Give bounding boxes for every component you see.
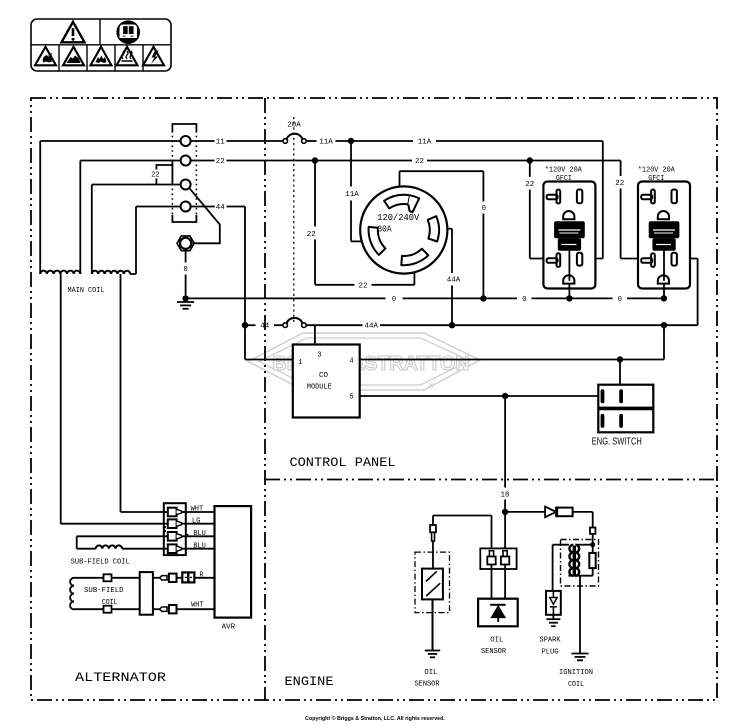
avr connector block — [164, 503, 186, 555]
wire terminal 22 to coil — [80, 160, 181, 162]
svg-text:BLU: BLU — [193, 542, 206, 550]
wire terminal 33 to bond — [189, 188, 220, 243]
svg-text:SPARK: SPARK — [540, 637, 562, 645]
outer dash-dot border — [31, 98, 717, 700]
wire 22 drop to GFCI2 — [621, 161, 642, 259]
svg-text:5: 5 — [349, 394, 353, 402]
wire 18 from pin5 junction — [502, 396, 508, 548]
GFCI bottom ground dome — [563, 275, 574, 283]
oil sensor connector block — [480, 548, 516, 598]
GFCI bottom neutral T-slot — [547, 253, 561, 267]
Briggs & Stratton watermark logo — [248, 333, 480, 391]
svg-text:*120V 20A: *120V 20A — [638, 167, 676, 175]
svg-text:18: 18 — [501, 491, 510, 499]
svg-text:COIL: COIL — [568, 681, 584, 689]
divider alternator / control panel — [264, 98, 266, 700]
svg-text:AVR: AVR — [222, 624, 236, 632]
wire bond to ground 0 — [185, 249, 187, 299]
terminal 11 — [181, 136, 191, 146]
inline connector R row — [153, 574, 182, 582]
warning triangle general alert icon — [62, 22, 85, 43]
svg-text:CONTROL PANEL: CONTROL PANEL — [290, 455, 396, 470]
svg-text:*120V 20A: *120V 20A — [545, 167, 583, 175]
ignition coil T1 — [553, 540, 599, 587]
svg-text:SENSOR: SENSOR — [415, 681, 441, 689]
svg-text:OIL: OIL — [490, 637, 503, 645]
GFCI top ground dome — [563, 211, 574, 219]
receptacle slot bottom — [401, 249, 428, 265]
wire BLU row 3 — [186, 535, 215, 537]
spark plug P1 — [546, 591, 561, 615]
svg-text:WHT: WHT — [191, 506, 204, 514]
svg-text:11A: 11A — [345, 191, 359, 199]
terminal 44 — [181, 202, 191, 212]
svg-text:ENG. SWITCH: ENG. SWITCH — [592, 437, 642, 448]
wire pin 5 to eng switch — [360, 393, 599, 399]
svg-text:MODULE: MODULE — [307, 384, 332, 392]
wire pin 4 to eng switch — [360, 325, 664, 385]
sub-field coil 1 — [77, 536, 168, 548]
svg-text:44A: 44A — [447, 277, 461, 285]
wire 44 to breaker — [245, 324, 256, 326]
wire 22 drop to GFCI1 — [530, 161, 548, 259]
ground main — [177, 295, 194, 309]
connector pin row 4 — [168, 544, 186, 553]
connector pin row 3 — [168, 532, 186, 541]
wire 22 drop to receptacle — [315, 161, 414, 285]
svg-text:0: 0 — [183, 266, 187, 274]
svg-text:Copyright © Briggs & Stratton,: Copyright © Briggs & Stratton, LLC. All … — [305, 715, 445, 722]
bond terminal — [177, 236, 194, 251]
svg-text:0: 0 — [482, 205, 486, 213]
connector pin row 1 — [168, 508, 186, 517]
ground ignition coil — [572, 653, 589, 655]
terminal 22 — [181, 156, 191, 166]
svg-text:WHT: WHT — [191, 602, 204, 610]
engine switch S1 — [598, 385, 653, 433]
inline connector oil switch — [430, 525, 436, 569]
CO module U1 — [293, 345, 360, 418]
svg-text:22: 22 — [615, 180, 624, 188]
wire 44 drop from terminal — [191, 207, 293, 360]
svg-text:IGNITION: IGNITION — [559, 669, 593, 677]
GFCI bottom hot slot — [672, 253, 677, 266]
svg-text:22: 22 — [151, 172, 160, 180]
GFCI top hot slot — [672, 190, 677, 204]
svg-text:22: 22 — [359, 282, 368, 290]
warning triangle hazard icon 4 — [117, 47, 138, 66]
GFCI outlet body — [638, 182, 690, 289]
warning triangle hazard icon 5 — [143, 47, 164, 66]
wire ignition to ground — [579, 576, 581, 653]
svg-text:44: 44 — [216, 204, 225, 212]
svg-text:4: 4 — [349, 358, 353, 366]
svg-text:SUB-FIELD COIL: SUB-FIELD COIL — [71, 558, 130, 566]
svg-text:MAIN COIL: MAIN COIL — [68, 287, 105, 295]
svg-text:44A: 44A — [365, 323, 379, 331]
svg-text:0: 0 — [392, 296, 396, 304]
svg-text:22: 22 — [307, 231, 316, 239]
svg-text:11A: 11A — [319, 139, 333, 147]
receptacle slot left — [369, 227, 386, 255]
inline connector WHT row — [153, 605, 215, 613]
wire net 11 — [191, 140, 283, 142]
ground spark plug — [546, 615, 560, 626]
label OIL SENSOR module — [481, 637, 507, 657]
wire terminal 44 to coil — [136, 206, 181, 208]
svg-text:PLUG: PLUG — [542, 649, 559, 657]
GFCI top ground dome — [658, 211, 669, 219]
warning triangle hazard icon 1 — [35, 47, 56, 66]
svg-text:20A: 20A — [287, 122, 301, 130]
svg-text:0: 0 — [522, 296, 526, 304]
svg-text:SENSOR: SENSOR — [481, 648, 507, 656]
label SPARK PLUG — [540, 637, 562, 657]
svg-text:CO: CO — [319, 372, 328, 380]
wire terminal 11 to coil — [40, 140, 181, 142]
receptacle slot right — [428, 216, 439, 241]
wire ignition to spark plug — [552, 545, 554, 591]
svg-text:OIL: OIL — [424, 669, 437, 677]
svg-text:ENGINE: ENGINE — [285, 674, 334, 689]
AVR regulator — [215, 506, 252, 617]
pin 3 wire — [314, 325, 316, 344]
GFCI center ground wire — [568, 250, 570, 298]
terminal 33 — [181, 180, 191, 190]
wire oil sensor switch feed — [433, 516, 492, 549]
main coil winding B — [92, 185, 136, 513]
GFCI reset button — [555, 222, 585, 238]
breaker trip link dashed — [293, 117, 295, 322]
circuit breaker 20A pole 1 — [283, 134, 306, 144]
wire LG row — [61, 523, 168, 525]
svg-text:ALTERNATOR: ALTERNATOR — [75, 670, 166, 685]
svg-text:11: 11 — [216, 139, 225, 147]
svg-text:22: 22 — [415, 158, 424, 166]
label OIL SENSOR left — [415, 669, 441, 689]
warning triangle hazard icon 3 — [91, 47, 112, 66]
svg-text:22: 22 — [525, 181, 534, 189]
svg-text:LG: LG — [192, 517, 201, 525]
label BLU row3 — [187, 534, 189, 536]
GFCI bottom neutral T-slot — [641, 253, 655, 267]
main coil winding A — [40, 141, 80, 524]
terminal block — [172, 124, 196, 222]
svg-text:120/240V: 120/240V — [377, 212, 419, 223]
inline connector ignition — [590, 528, 595, 545]
wire 11A drop to receptacle — [351, 141, 370, 241]
svg-text:3: 3 — [317, 352, 321, 360]
GFCI bottom hot slot — [577, 253, 582, 266]
wire receptacle 0 to net 0 — [400, 171, 484, 298]
svg-text:BLU: BLU — [193, 530, 206, 538]
wire terminal 33 to coil — [92, 184, 181, 186]
receptacle slot top — [384, 195, 419, 212]
svg-text:22: 22 — [216, 158, 225, 166]
connector square bottom — [104, 606, 112, 613]
inline resistor after diode — [557, 508, 572, 517]
circuit breaker 20A pole 2 — [283, 318, 306, 328]
ground oil switch — [425, 650, 440, 652]
receptacle L14-30 outline — [360, 186, 447, 273]
GFCI reset button — [649, 222, 679, 238]
wire net 11A — [306, 138, 603, 259]
diode D1 — [545, 507, 556, 518]
svg-text:11A: 11A — [418, 139, 432, 147]
GFCI bottom ground dome — [658, 275, 669, 283]
field connector block — [140, 572, 153, 615]
svg-text:1: 1 — [298, 359, 302, 367]
warning triangle hazard icon 2 — [63, 47, 84, 66]
sub-field coil 2 — [70, 578, 140, 610]
label SUB-FIELD COIL 2 — [84, 587, 124, 607]
GFCI outlet body — [543, 182, 595, 289]
label IGNITION COIL — [559, 669, 593, 689]
wire oil switch to ground — [432, 599, 434, 650]
wire R to AVR — [194, 577, 214, 579]
connector square top — [104, 574, 112, 581]
GFCI top neutral T-slot — [641, 190, 655, 204]
oil sensor switch — [415, 552, 450, 613]
wire net 44A — [306, 259, 697, 329]
wire net 22 — [191, 157, 621, 163]
GFCI test button — [653, 239, 675, 251]
GFCI top hot slot — [577, 190, 582, 204]
oil sensor module — [478, 599, 518, 627]
svg-text:30A: 30A — [378, 224, 392, 235]
GFCI test button — [558, 239, 580, 251]
svg-text:®: ® — [428, 382, 434, 391]
wire BLU row 4 — [186, 548, 215, 550]
wire diode to ignition — [573, 512, 593, 528]
wire WHT row — [121, 511, 168, 513]
GFCI center ground wire — [663, 250, 665, 298]
svg-text:0: 0 — [618, 296, 622, 304]
read manual icon — [117, 21, 139, 43]
warning label box — [31, 19, 171, 71]
wire net 0 — [186, 295, 668, 301]
GFCI top neutral T-slot — [547, 190, 561, 204]
connector pin row 2 — [168, 519, 186, 528]
svg-text:44: 44 — [260, 323, 269, 331]
wire to diode — [505, 511, 545, 513]
wire 22 tap bracket — [156, 161, 172, 185]
wire 44A drop receptacle — [437, 229, 452, 326]
svg-text:SUB-FIELD: SUB-FIELD — [84, 587, 124, 595]
fuse R — [182, 572, 194, 582]
divider control panel / engine — [265, 479, 717, 481]
